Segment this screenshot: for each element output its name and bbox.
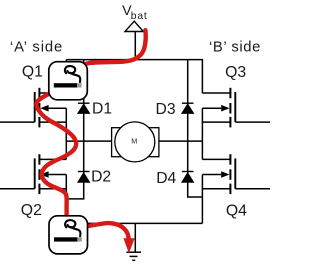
svg-text:D1: D1 xyxy=(92,100,112,117)
svg-text:‘B’ side: ‘B’ side xyxy=(209,40,261,56)
svg-text:Q2: Q2 xyxy=(21,202,42,219)
svg-text:Q1: Q1 xyxy=(22,64,43,81)
svg-text:‘A’ side: ‘A’ side xyxy=(10,40,63,56)
svg-text:Q4: Q4 xyxy=(226,202,247,219)
svg-text:bat: bat xyxy=(131,11,148,22)
svg-text:Q3: Q3 xyxy=(225,64,246,81)
svg-text:D3: D3 xyxy=(156,101,176,118)
svg-text:D4: D4 xyxy=(156,170,176,187)
svg-text:D2: D2 xyxy=(91,168,111,185)
svg-text:M: M xyxy=(131,137,137,146)
